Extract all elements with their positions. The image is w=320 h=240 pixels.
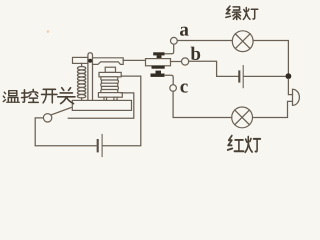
- armature rod to contact blade: [123, 59, 145, 61]
- label c: [180, 84, 187, 93]
- spring link bottom: [81, 98, 83, 101]
- label a: [180, 27, 189, 36]
- wire red lamp to node c: [173, 91, 232, 117]
- electromagnet core stem: [105, 67, 115, 72]
- relay base: [72, 100, 131, 110]
- working battery short plate: [238, 70, 240, 82]
- relay armature left bar: [73, 57, 89, 63]
- label 灯 (green): [243, 8, 258, 20]
- contact c stationary (dark): [156, 71, 162, 74]
- control battery long plate: [101, 134, 103, 157]
- wire battery to junction: [244, 75, 289, 77]
- wire green lamp to right rail: [253, 41, 288, 74]
- spring coil: [77, 67, 85, 98]
- label 开: [42, 89, 58, 102]
- label 灯 (red): [245, 137, 260, 153]
- label 红: [228, 136, 244, 152]
- flange feet: [104, 97, 107, 100]
- label 控: [22, 89, 39, 102]
- coil wire A to battery: [103, 76, 141, 146]
- node b circle: [182, 58, 189, 65]
- electromagnet top cap: [99, 72, 121, 76]
- pivot dot: [88, 59, 92, 63]
- switch blade (open): [51, 108, 71, 115]
- paper speck: [47, 30, 50, 33]
- bottom wire left: [35, 118, 97, 146]
- wire a to green lamp: [177, 40, 232, 42]
- wire b to battery: [189, 61, 239, 76]
- contact blade (movable): [146, 59, 171, 66]
- relay pivot column: [88, 53, 93, 101]
- wire junction to bell top: [288, 79, 292, 95]
- relay armature right bar: [93, 58, 124, 65]
- working battery long plate: [242, 65, 244, 88]
- contact a stationary (dark): [153, 52, 164, 55]
- bell: [293, 89, 300, 105]
- electromagnet bottom flange: [98, 93, 122, 98]
- node c circle: [170, 85, 177, 92]
- junction dot: [286, 73, 292, 79]
- wire contact-c to node c: [165, 75, 174, 84]
- red lamp: [232, 107, 253, 128]
- wire contact-a to node a: [165, 44, 174, 54]
- label 绿: [226, 6, 241, 19]
- wire blade to node b: [171, 61, 182, 63]
- switch pivot circle: [43, 114, 51, 122]
- bell bottom wire to red lamp: [253, 101, 293, 117]
- green lamp: [232, 31, 253, 52]
- spring link top: [81, 63, 83, 66]
- electromagnet coil body: [101, 77, 119, 93]
- label b: [191, 47, 201, 60]
- label 温: [3, 91, 19, 103]
- label 关: [58, 88, 75, 104]
- coil wire B to switch contact: [68, 93, 134, 118]
- control battery short plate: [97, 139, 99, 152]
- moving contact under blade (dark): [152, 66, 165, 69]
- node a circle: [171, 37, 178, 44]
